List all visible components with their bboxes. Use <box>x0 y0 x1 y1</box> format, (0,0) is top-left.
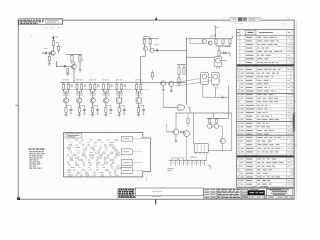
driver unit 4: transistor Q10 <box>103 98 108 103</box>
resistor R7 <box>143 39 145 47</box>
wire FF to Q19 <box>219 126 223 138</box>
supply rail 3 <box>186 35 232 38</box>
resistor R31 <box>187 113 189 127</box>
PCB label box <box>66 134 82 138</box>
wire to right section <box>157 49 186 51</box>
wire Q3 to bus <box>141 51 146 83</box>
ground G2 <box>66 73 69 75</box>
driver unit 5: emitter resistor <box>118 103 120 115</box>
driver unit 1: resistors <box>63 80 73 98</box>
transistor Q1 <box>51 51 56 56</box>
driver unit 2: emitter resistor <box>78 103 80 115</box>
driver unit 3: resistors <box>89 80 99 98</box>
driver unit 3: transistor Q9 <box>90 98 95 103</box>
wire Q15 base <box>167 124 173 132</box>
driver unit 6: ground <box>137 115 140 117</box>
stub mark <box>146 177 148 181</box>
driver unit 4: bypass capacitor <box>106 105 112 115</box>
wire relay to Q19 <box>208 144 232 151</box>
lamp DS2 <box>201 72 209 86</box>
transistor Q17 <box>208 124 212 128</box>
flip-flop rail <box>206 117 228 119</box>
transistor Q15 <box>173 129 179 135</box>
driver unit 6: resistors <box>135 80 142 98</box>
transistor Q16 <box>184 131 190 137</box>
signal bus wire <box>176 113 232 150</box>
resistor R6 <box>67 68 69 73</box>
PCB assembly outline <box>64 133 151 177</box>
transistor Q5 <box>202 39 207 44</box>
wire Q16 down <box>186 137 188 161</box>
driver unit 1: emitter resistor <box>65 103 67 115</box>
driver unit 3: ground <box>91 115 94 117</box>
capacitor C1 <box>42 52 51 54</box>
driver unit 3: bypass capacitor <box>93 105 99 115</box>
connector J1 <box>169 157 207 166</box>
title block <box>118 186 294 199</box>
driver unit 1: bypass capacitor <box>66 105 72 115</box>
rail wire <box>177 64 186 66</box>
revision block <box>223 17 261 24</box>
resistor R3 <box>44 44 60 52</box>
driver unit 5: transistor Q11 <box>117 98 122 103</box>
PCB right connector boxes <box>121 136 143 173</box>
ground G1 <box>48 64 51 66</box>
driver unit 3: emitter resistor <box>92 103 94 115</box>
resistor R1 <box>52 41 59 46</box>
driver unit 4: ground <box>104 115 107 117</box>
driver unit 4: emitter resistor <box>105 103 107 115</box>
resistor R2 <box>48 53 50 64</box>
wire lower right <box>216 46 230 56</box>
wire node row <box>56 61 71 67</box>
resistor R26 <box>183 65 185 75</box>
ground G6 <box>174 135 177 143</box>
driver unit 6: bypass capacitor <box>139 105 145 115</box>
wire Q5 base <box>190 39 203 44</box>
driver unit 1: transistor Q7 <box>63 98 68 103</box>
diode D1 <box>220 46 231 54</box>
capacitor C2 <box>65 65 66 67</box>
wire Q2 to bus <box>73 69 75 83</box>
transistor Q2 <box>71 64 76 69</box>
bus wire B <box>61 89 149 91</box>
resistor R11 <box>229 39 231 46</box>
junction mark <box>221 96 224 99</box>
driver unit 6: transistor Q12 <box>136 98 141 103</box>
notes box <box>19 19 63 25</box>
ground G5 <box>170 86 173 92</box>
capacitor C3 <box>154 49 157 51</box>
relay K1 <box>194 144 208 155</box>
cross-coupling wires <box>211 124 216 129</box>
wire +V feed <box>214 27 219 39</box>
resistor R12 <box>218 46 220 56</box>
driver unit 2: transistor Q8 <box>77 98 82 103</box>
resistor R29 <box>209 119 211 123</box>
label text <box>168 168 174 170</box>
net label marks <box>30 36 84 62</box>
transistor Q13 <box>161 81 166 86</box>
transistor Q18 <box>215 124 219 128</box>
resistor R28 <box>180 131 183 133</box>
driver unit 6: emitter resistor <box>138 103 140 115</box>
ground G4 <box>162 86 165 92</box>
resistor R27 <box>178 74 180 86</box>
wire feed to relay <box>193 113 195 144</box>
transistor Q6 <box>208 41 212 45</box>
corner mark <box>208 165 210 168</box>
lamp DS1 <box>214 57 226 69</box>
driver unit 2: resistors <box>76 80 86 98</box>
transistor Q14 <box>169 81 174 86</box>
lamp DS3 <box>209 72 219 86</box>
power terminal +V1 <box>52 36 58 41</box>
driver unit 4: resistors <box>103 80 113 98</box>
driver unit 5: ground <box>118 115 121 117</box>
resistor R25 <box>178 65 180 75</box>
main vertical wire <box>186 38 214 105</box>
driver unit 2: bypass capacitor <box>79 105 85 115</box>
driver unit 5: bypass capacitor <box>119 105 125 115</box>
resistor R10 <box>222 39 224 46</box>
transistor Q19 <box>220 138 225 143</box>
driver unit 1: ground <box>64 115 67 117</box>
PCB internal parts <box>67 139 121 176</box>
supply rail 2 <box>142 36 158 39</box>
bus wire A <box>60 82 186 84</box>
resistor R8 <box>149 39 151 49</box>
lamp return wires <box>203 85 229 118</box>
parts list table <box>237 30 294 188</box>
wire Q2 collector <box>74 62 76 65</box>
resistor R32 <box>151 70 153 80</box>
resistor R4 <box>71 54 73 64</box>
resistor R9 <box>215 39 217 46</box>
buffer U1 <box>163 93 190 113</box>
wire J1 to relay <box>206 154 208 160</box>
company name block <box>28 149 45 169</box>
faint note text <box>44 26 61 29</box>
resistor R5 <box>79 54 81 66</box>
ground G3 <box>78 66 81 72</box>
wire diag 1 <box>174 79 201 83</box>
transistor Q4 <box>150 44 159 52</box>
wire diag 2 <box>176 81 212 86</box>
resistor R30 <box>216 119 218 123</box>
wire R1 to Q1 <box>52 46 54 51</box>
driver unit 5: resistors <box>116 80 126 98</box>
driver unit 2: ground <box>78 115 81 117</box>
supply rail wire <box>66 53 82 55</box>
transistor Q3 <box>144 47 148 51</box>
